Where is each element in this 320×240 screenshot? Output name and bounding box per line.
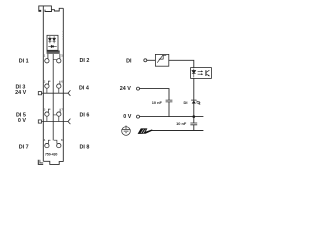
24V power jumper wire — [42, 92, 69, 94]
status LED symbol — [191, 100, 201, 105]
DIN rail symbol — [138, 128, 153, 134]
wire stub terminal 4 — [48, 140, 50, 144]
svg-text:10 nF: 10 nF — [152, 100, 163, 105]
wire 24V — [140, 89, 170, 101]
svg-text:6: 6 — [61, 79, 63, 83]
LED A (left status LED) — [48, 36, 51, 43]
filter box U1 — [155, 54, 168, 66]
svg-text:2: 2 — [44, 79, 46, 83]
svg-text:DI: DI — [184, 100, 188, 105]
stub terminal6 to jumper — [58, 88, 60, 93]
wire stub terminal 1 — [47, 54, 49, 59]
row3 right connector — [53, 114, 56, 116]
svg-text:DI 2: DI 2 — [80, 58, 90, 64]
svg-text:DI 8: DI 8 — [80, 144, 90, 150]
DIN latch foot — [39, 10, 42, 12]
svg-text:4: 4 — [44, 138, 46, 142]
wire stub terminal 8 — [54, 140, 57, 144]
right edge groove ticks — [62, 32, 65, 39]
wire 0V rail — [140, 116, 204, 118]
functional earth symbol — [122, 126, 131, 136]
terminal 4 clamp — [45, 143, 49, 147]
terminal 2 clamp — [45, 84, 49, 88]
svg-text:750-430: 750-430 — [45, 153, 58, 157]
terminal 7 clamp — [57, 112, 61, 116]
optocoupler box U2 — [191, 68, 212, 79]
module body left edge — [42, 6, 44, 161]
svg-text:10 nF: 10 nF — [176, 121, 187, 126]
data contacts bar — [47, 51, 60, 54]
0V power jumper wire — [42, 121, 69, 123]
optocoupler phototransistor — [206, 70, 210, 76]
DI input terminal — [144, 59, 147, 62]
svg-text:7: 7 — [61, 107, 63, 111]
wire stub terminal 6 — [59, 81, 61, 85]
LED box — [47, 35, 58, 50]
svg-text:DI 6: DI 6 — [80, 113, 90, 119]
svg-text:8: 8 — [61, 138, 63, 142]
stub terminal7 to jumper — [58, 116, 60, 121]
wire C1 to 0V rail — [168, 102, 170, 117]
svg-text:5: 5 — [61, 53, 63, 57]
terminal 8 clamp — [57, 143, 61, 147]
stub terminal2 to jumper — [46, 88, 48, 93]
wire DI to filter — [147, 59, 156, 61]
terminal 1 clamp — [45, 59, 49, 63]
svg-text:DI 4: DI 4 — [79, 86, 89, 92]
svg-text:24 V: 24 V — [120, 86, 131, 92]
wire stub terminal 5 — [59, 54, 61, 59]
svg-text:24 V: 24 V — [15, 90, 26, 96]
capacitor C1 plates — [166, 100, 173, 102]
24V terminal — [137, 87, 140, 90]
svg-text:0 V: 0 V — [123, 114, 131, 120]
terminal 3 clamp — [45, 112, 49, 116]
module body right edge — [62, 8, 64, 161]
svg-text:DI 1: DI 1 — [19, 59, 29, 65]
24V jumper spring contact — [68, 90, 70, 96]
earth rail — [150, 130, 203, 132]
optocoupler light arrows — [198, 71, 204, 76]
row1 right connector — [53, 58, 56, 60]
release tab — [38, 160, 43, 165]
wire optocoupler down — [193, 78, 195, 123]
wire stub terminal 2 — [48, 81, 50, 84]
wire filter to optocoupler — [169, 60, 194, 67]
svg-text:DI 7: DI 7 — [19, 144, 29, 150]
svg-text:1: 1 — [44, 54, 46, 58]
module top profile — [39, 6, 64, 12]
capacitor C2 plates — [190, 123, 197, 125]
24V jumper blade contact — [38, 92, 41, 95]
internal bus divider — [52, 54, 54, 140]
wire stub terminal 7 — [59, 109, 61, 113]
wire C2 to earth rail — [193, 125, 195, 131]
svg-text:3: 3 — [44, 107, 46, 111]
terminal 6 clamp — [57, 84, 61, 88]
rail notch — [45, 10, 52, 12]
svg-text:DI: DI — [126, 58, 132, 64]
stub terminal3 to jumper — [46, 116, 48, 121]
0V jumper blade contact — [38, 120, 41, 123]
module bottom profile — [43, 161, 63, 164]
svg-text:0 V: 0 V — [18, 118, 26, 124]
wire stub terminal 3 — [48, 109, 50, 112]
0V terminal — [137, 115, 140, 118]
diode D1 (series diode in LED box) — [48, 45, 56, 47]
terminal 5 clamp — [57, 59, 61, 63]
junction dot — [192, 115, 195, 118]
LED B (right status LED) — [53, 36, 56, 43]
0V jumper spring contact — [68, 119, 70, 125]
filter threshold symbol — [157, 55, 166, 62]
optocoupler LED — [192, 69, 196, 78]
